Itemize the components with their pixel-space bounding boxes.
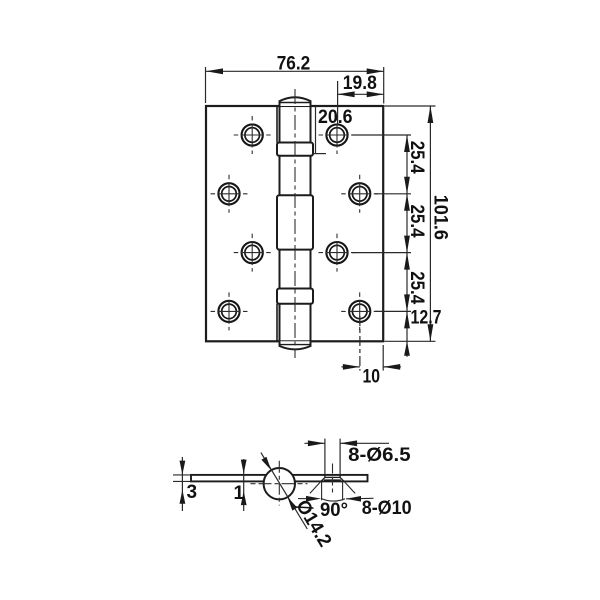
svg-text:19.8: 19.8	[343, 73, 377, 94]
svg-text:10: 10	[363, 367, 381, 388]
svg-text:20.6: 20.6	[318, 107, 353, 128]
svg-text:1: 1	[234, 483, 245, 504]
svg-text:8-Ø10: 8-Ø10	[362, 498, 412, 519]
svg-text:101.6: 101.6	[430, 195, 451, 240]
svg-text:3: 3	[187, 482, 198, 503]
svg-text:25.4: 25.4	[406, 271, 427, 304]
svg-text:90°: 90°	[320, 500, 348, 521]
svg-text:76.2: 76.2	[277, 53, 311, 74]
svg-text:25.4: 25.4	[406, 141, 427, 174]
svg-text:25.4: 25.4	[406, 205, 427, 238]
svg-text:12.7: 12.7	[411, 307, 442, 328]
svg-text:8-Ø6.5: 8-Ø6.5	[348, 445, 411, 466]
